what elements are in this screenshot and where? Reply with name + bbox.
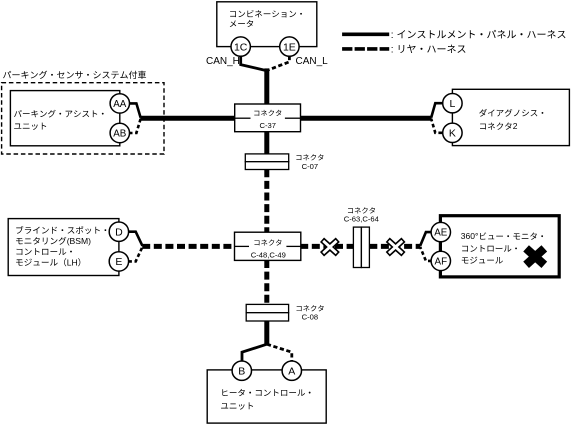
svg-text:1C: 1C: [234, 41, 248, 53]
label: heater control unit line 2: [221, 402, 253, 409]
svg-text:E: E: [115, 256, 122, 268]
label: BSM line 3: [16, 248, 71, 255]
fault X mark inside 360-view module: [526, 248, 544, 264]
terminal E: [109, 252, 128, 271]
360-view monitor module box (thick border): [440, 216, 559, 277]
terminal AA: [110, 94, 129, 113]
label: combination meter line 2: [230, 20, 253, 27]
label: connector C-63,C-64 line 1: [348, 207, 375, 213]
svg-text:CAN_L: CAN_L: [296, 56, 329, 67]
svg-text:C-08: C-08: [302, 313, 318, 322]
svg-text:CAN_H: CAN_H: [206, 56, 240, 67]
wire: branch point to terminal A (dashed): [267, 344, 292, 361]
label: connector C-08 line 1: [297, 305, 324, 311]
label: BSM line 2: [16, 237, 66, 245]
wire: terminal AB to branch point (dashed): [129, 119, 141, 133]
wire: terminal L to branch point (solid): [431, 103, 442, 117]
svg-text::: :: [391, 30, 394, 41]
legend: rear harness (dashed) sample: [342, 47, 389, 51]
terminal A: [282, 361, 301, 380]
wire: terminal AE to branch point (solid): [420, 232, 431, 246]
terminal D: [109, 222, 128, 241]
svg-text:C-37: C-37: [260, 121, 276, 130]
connector C-48,C-49 box: [235, 232, 301, 260]
connector C-08 symbol: [246, 304, 288, 312]
svg-text:LH: LH: [67, 257, 78, 267]
terminal 1E: [280, 37, 299, 56]
label: BSM line 1: [16, 226, 106, 234]
svg-text:360°: 360°: [461, 231, 479, 241]
terminal AF: [431, 251, 450, 270]
diagnosis connector 2 box: [452, 89, 569, 145]
svg-text:C-48,C-49: C-48,C-49: [251, 250, 286, 259]
terminal AE: [431, 222, 450, 241]
terminal L: [443, 94, 462, 113]
svg-text:C-07: C-07: [302, 162, 318, 171]
heater control unit box: [207, 370, 326, 423]
blind spot monitoring module box: [8, 219, 119, 276]
svg-text:D: D: [115, 226, 123, 238]
label: connector C-37 line 1: [254, 110, 281, 116]
connector C-07 symbol: [245, 154, 288, 162]
svg-text:A: A: [288, 365, 295, 377]
connector C-63,C-64 symbol: [353, 227, 361, 267]
label: parking assist unit line 2: [14, 123, 46, 130]
terminal 1C: [231, 37, 250, 56]
label: connector C-07 line 1: [296, 154, 323, 160]
svg-text::: :: [391, 45, 394, 56]
connector C-48 midline left stub: [235, 245, 250, 247]
terminal B: [232, 361, 251, 380]
svg-text:AA: AA: [113, 99, 127, 110]
parking sensor system dashed enclosure: [2, 83, 164, 154]
terminal K: [443, 123, 462, 142]
svg-text:AB: AB: [113, 129, 127, 140]
terminal AB: [110, 123, 129, 142]
combination meter box: [217, 2, 317, 47]
wire: terminal AF to branch point (dashed): [420, 247, 431, 261]
wire: junction to connector C-37 (thick trunk): [264, 68, 269, 104]
connector C-37 box: [235, 104, 301, 132]
wire: terminal K to branch point (dashed): [431, 119, 442, 133]
wire: C-08 to heater branch (thick solid): [264, 321, 269, 345]
svg-text:AE: AE: [434, 228, 448, 239]
label: combination meter line 1: [230, 10, 302, 17]
svg-text:B: B: [238, 365, 245, 377]
wire: C-37 to diagnosis branch (thick trunk, right): [300, 116, 432, 121]
legend: instrument panel harness (solid) sample: [342, 32, 389, 36]
svg-text:K: K: [449, 128, 456, 140]
label: BSM line 4: [16, 258, 66, 266]
wire: terminal AA to branch point (solid): [129, 103, 141, 117]
svg-text:2: 2: [513, 121, 518, 131]
connector C-37 midline left stub: [235, 117, 251, 119]
wire: terminal E to branch point (dashed): [128, 247, 142, 261]
parking assist unit box: [10, 91, 119, 146]
label: diagnosis connector line 2: [480, 122, 512, 129]
wire: terminal 1C to junction (instrument panel harness, solid): [241, 56, 267, 71]
abnormal point X mark 1 (between C-48 and C-63): [321, 239, 339, 256]
wire: terminal 1E to junction (rear harness, dashed): [267, 56, 289, 71]
connector C-37 midline right stub: [285, 117, 301, 119]
wire: parking branch to C-37 (thick trunk, left): [140, 116, 235, 121]
svg-text:C-63,C-64: C-63,C-64: [344, 214, 379, 223]
wire: C-07 to connector C-48,C-49 (thick dashed): [264, 169, 269, 232]
svg-text:(BSM): (BSM): [67, 236, 91, 246]
connector C-48 midline right stub: [286, 245, 300, 247]
label: parking assist unit line 1: [14, 110, 104, 118]
wire: C-48,C-49 to connector C-08 (thick dashed): [264, 260, 269, 305]
wire: terminal D to branch point (solid): [128, 232, 142, 246]
wire: BSM module branch to C-48,C-49 (thick dashed): [142, 244, 235, 249]
svg-text:L: L: [449, 98, 455, 110]
wire: C-63,C-64 to 360-view branch (thick dashed): [369, 244, 420, 249]
wire: C-48,C-49 to connector C-63,C-64 (thick dashed): [300, 244, 353, 249]
abnormal point X mark 2 (between C-63 and 360-view module): [387, 239, 405, 256]
label: 360 view line 3: [462, 257, 503, 264]
wire: C-37 to connector C-07 (thick solid): [264, 132, 269, 155]
label: diagnosis connector line 1: [479, 109, 543, 117]
label: parking sensor system: [3, 71, 146, 79]
label: 360 view line 2: [462, 245, 517, 252]
label: connector C-48 line 1: [254, 239, 281, 245]
label: heater control unit line 1: [222, 389, 310, 396]
svg-text:AF: AF: [435, 256, 448, 267]
wire: branch point to terminal B (solid): [242, 344, 267, 361]
svg-text:1E: 1E: [283, 41, 296, 53]
